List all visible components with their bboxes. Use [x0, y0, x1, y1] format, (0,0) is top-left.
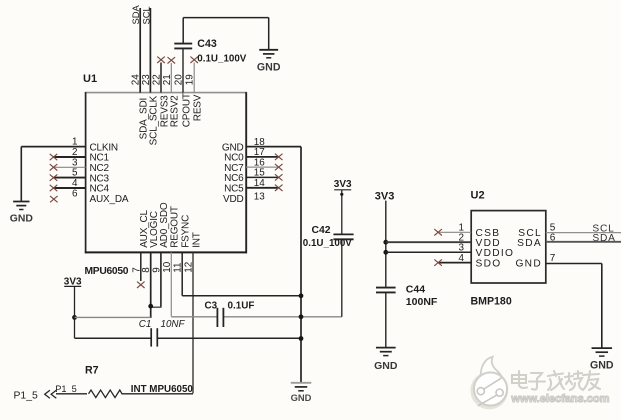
svg-text:GND: GND [257, 61, 281, 73]
svg-text:U1: U1 [83, 73, 97, 85]
svg-text:GND: GND [590, 359, 614, 371]
svg-text:15: 15 [254, 168, 265, 179]
svg-text:VDD: VDD [223, 194, 244, 205]
svg-text:INT MPU6050: INT MPU6050 [131, 384, 194, 395]
svg-text:C3: C3 [205, 300, 218, 311]
svg-text:C43: C43 [197, 38, 217, 50]
svg-text:C42: C42 [312, 225, 331, 236]
svg-text:SDO: SDO [476, 258, 502, 269]
svg-text:AUX_DA: AUX_DA [90, 194, 129, 205]
svg-text:R7: R7 [85, 365, 99, 377]
svg-text:P1_5: P1_5 [14, 391, 38, 402]
svg-text:P1_5: P1_5 [55, 384, 76, 394]
svg-text:SDA: SDA [517, 238, 542, 249]
svg-text:7: 7 [550, 253, 556, 264]
svg-text:13: 13 [254, 191, 265, 202]
svg-text:GND: GND [515, 258, 542, 269]
svg-text:14: 14 [254, 178, 265, 189]
svg-text:SDA: SDA [130, 4, 141, 24]
svg-text:CPOUT: CPOUT [181, 93, 192, 127]
svg-text:NC6: NC6 [224, 173, 244, 184]
svg-text:20: 20 [174, 74, 185, 85]
svg-text:FSYNC: FSYNC [181, 215, 192, 248]
svg-text:U2: U2 [471, 190, 485, 202]
svg-text:4: 4 [459, 253, 465, 264]
svg-text:INT: INT [191, 232, 202, 248]
svg-text:100NF: 100NF [406, 296, 438, 308]
svg-text:0.1U_100V: 0.1U_100V [303, 238, 352, 249]
svg-text:C1: C1 [139, 319, 152, 330]
svg-text:19: 19 [185, 74, 196, 85]
svg-text:3V3: 3V3 [334, 179, 352, 190]
svg-text:11: 11 [173, 262, 184, 273]
svg-text:AD0_SDO: AD0_SDO [159, 202, 170, 248]
svg-text:0.1U_100V: 0.1U_100V [197, 54, 246, 65]
svg-text:6: 6 [72, 188, 78, 199]
svg-text:SDA: SDA [592, 233, 615, 244]
svg-text:3V3: 3V3 [375, 190, 395, 202]
svg-text:BMP180: BMP180 [471, 296, 512, 308]
svg-text:10NF: 10NF [161, 319, 186, 330]
svg-text:1: 1 [72, 137, 78, 148]
svg-text:SCL_SCLK: SCL_SCLK [149, 95, 160, 145]
svg-text:10: 10 [162, 261, 173, 272]
svg-text:9: 9 [151, 267, 162, 273]
svg-text:GND: GND [374, 360, 398, 372]
svg-text:5: 5 [72, 168, 78, 179]
svg-text:NC3: NC3 [90, 173, 110, 184]
svg-text:23: 23 [141, 74, 152, 85]
svg-text:12: 12 [184, 262, 195, 273]
svg-text:21: 21 [162, 74, 173, 85]
svg-text:SCL: SCL [140, 6, 151, 24]
svg-text:MPU6050: MPU6050 [85, 266, 129, 277]
svg-text:REGOUT: REGOUT [170, 206, 181, 248]
svg-text:www.elecfans.com: www.elecfans.com [510, 393, 609, 405]
svg-text:CLKIN: CLKIN [90, 142, 118, 153]
svg-text:GND: GND [291, 392, 312, 403]
svg-text:C44: C44 [406, 284, 425, 296]
svg-text:0.1UF: 0.1UF [228, 300, 255, 311]
svg-text:RESV: RESV [193, 94, 204, 121]
svg-text:GND: GND [10, 214, 34, 225]
svg-text:RESV2: RESV2 [170, 95, 181, 127]
